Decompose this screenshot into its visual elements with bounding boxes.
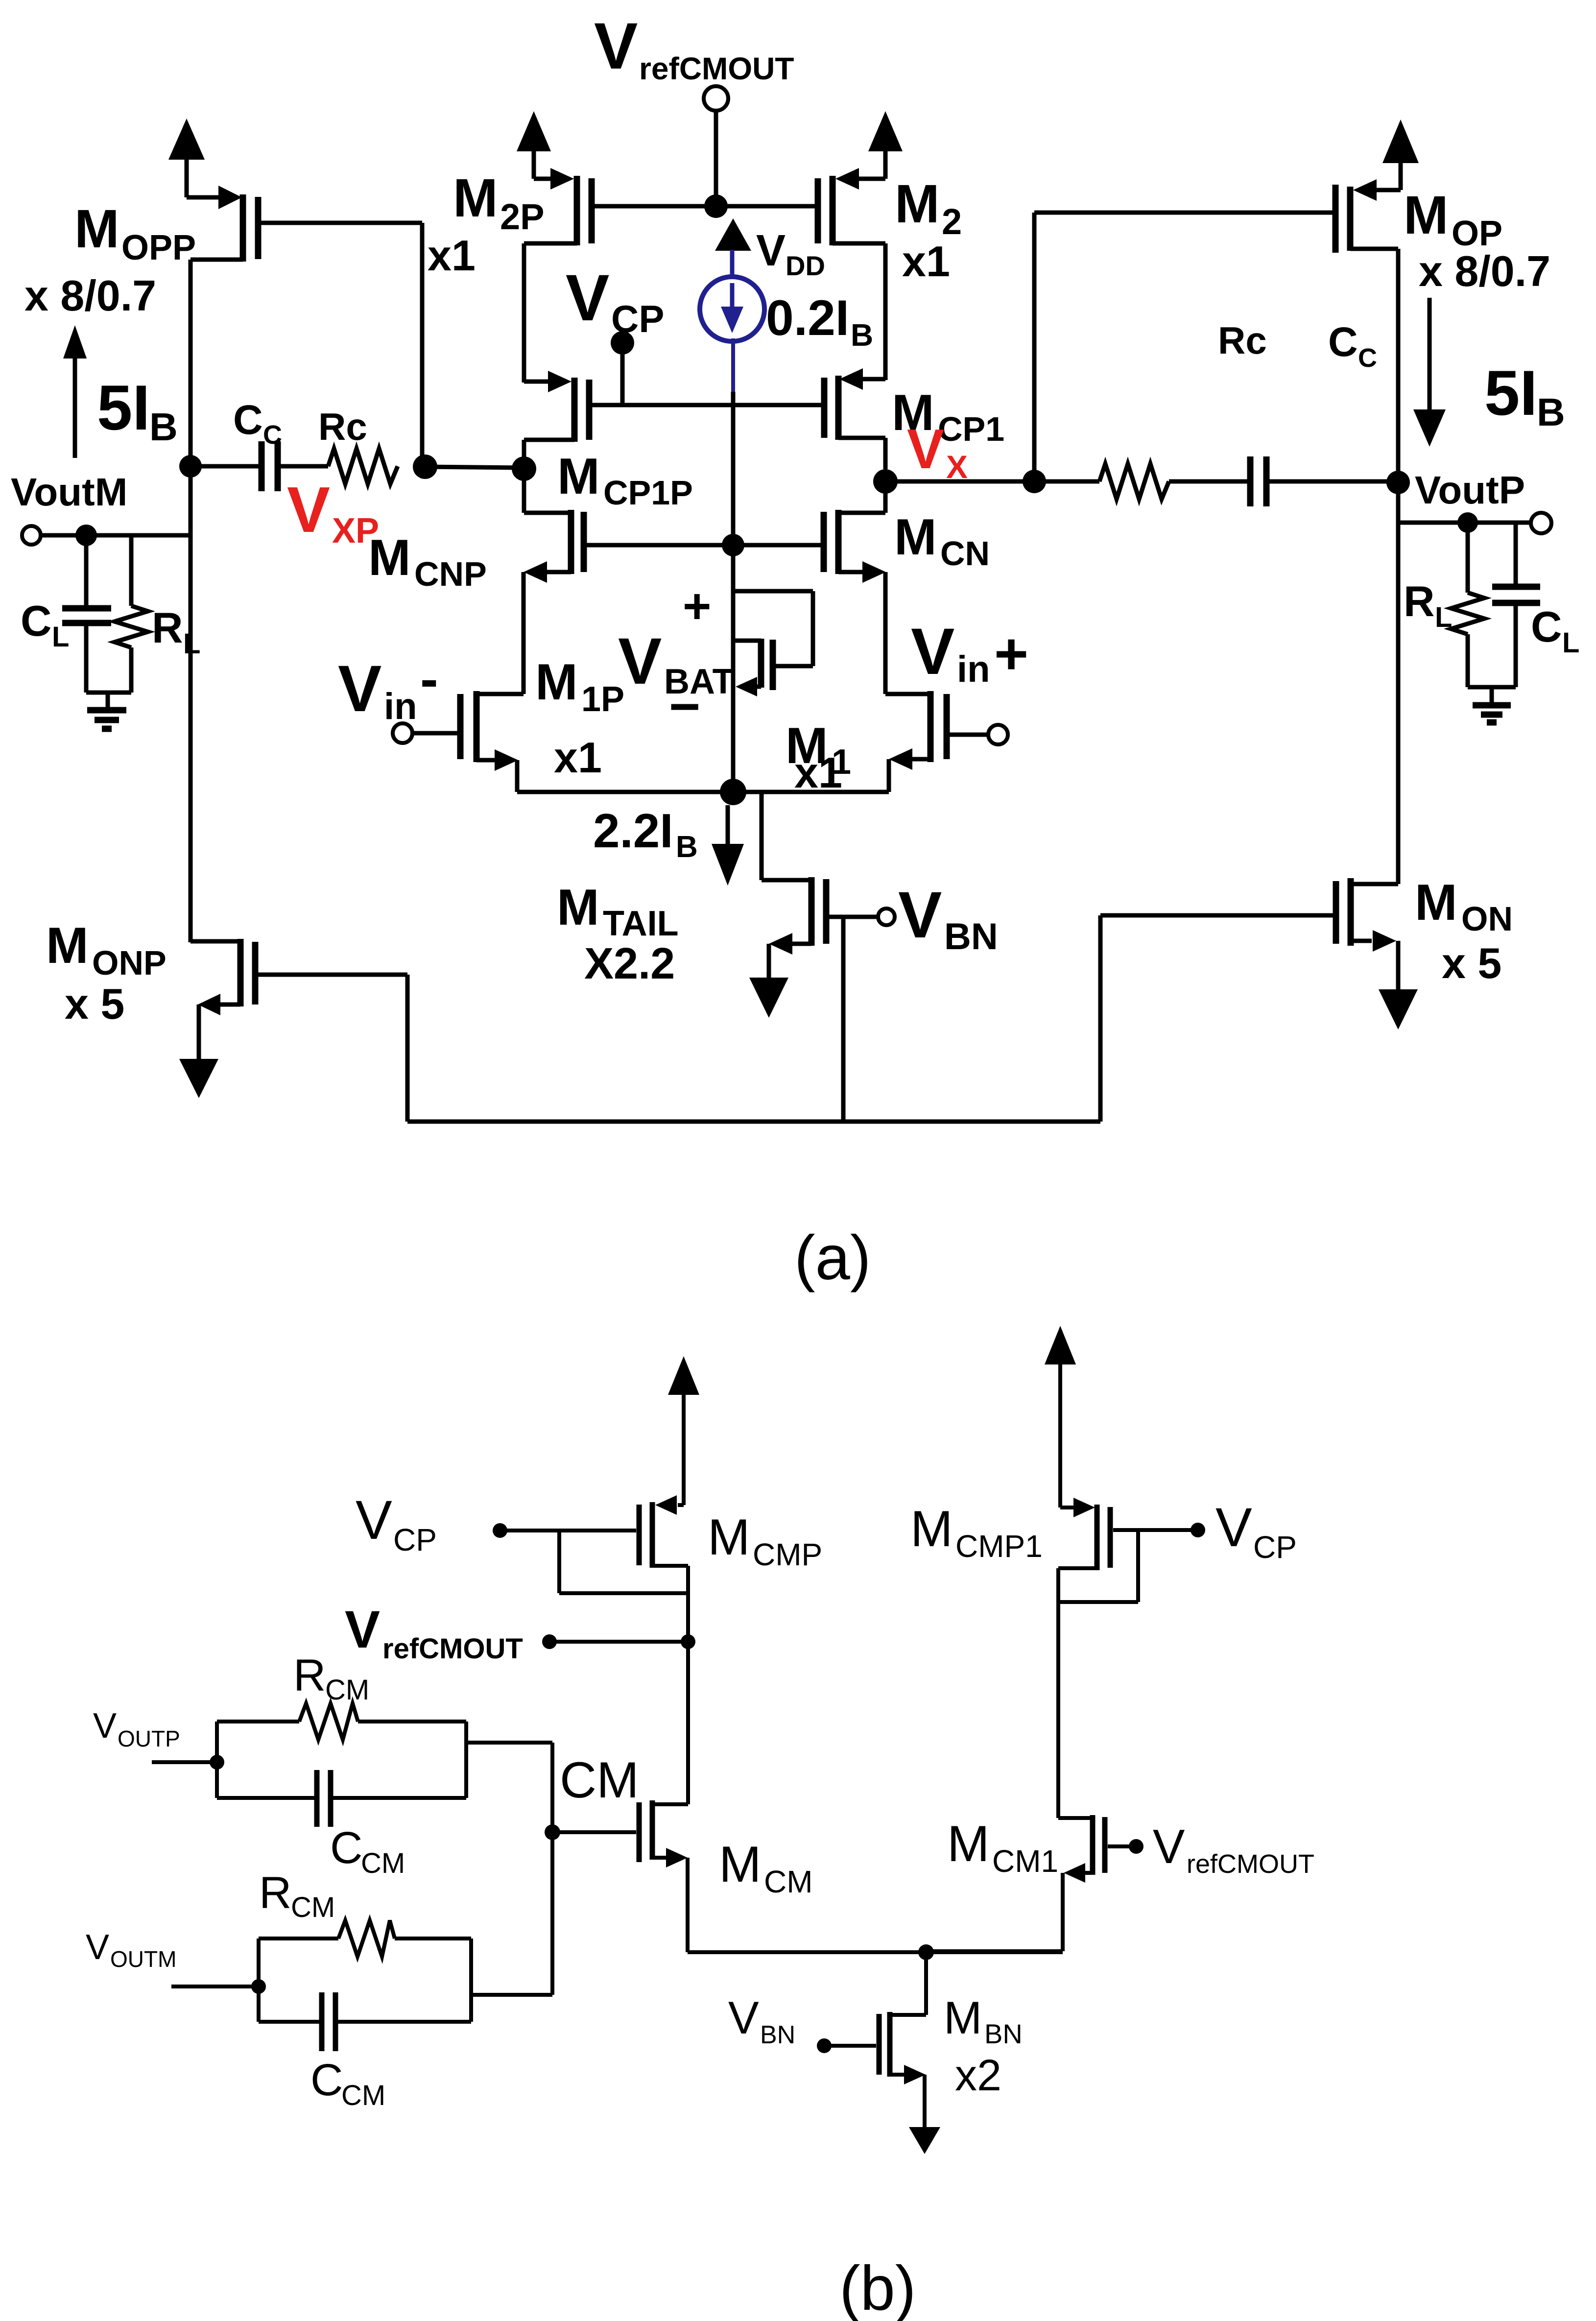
svg-text:2: 2 [942,201,962,242]
wire VOUTP block output [466,1741,552,1745]
svg-text:V: V [287,474,330,546]
5IB down arrow annotation (right) [1413,298,1446,447]
capacitor CL (right) [1492,523,1540,687]
ground arrow (MONP source, VSS) [179,1005,218,1098]
node VrefCMOUT (b right) [1129,1839,1143,1854]
resistor RL (right) [1451,525,1484,687]
svg-text:in: in [957,648,990,690]
svg-text:C: C [310,2055,343,2105]
label MCMP1 [910,1501,1043,1564]
svg-text:CP1: CP1 [938,410,1004,448]
label MCMP [708,1509,822,1572]
label MCP1 [892,384,1004,448]
svg-text:CP: CP [1253,1530,1297,1565]
transistor MON (NMOS x 5) [1100,878,1398,952]
svg-text:refCMOUT: refCMOUT [639,51,794,86]
wire VrefCMOUT to drain column [549,1640,688,1644]
svg-text:V: V [566,262,609,335]
svg-text:x2: x2 [955,2051,1001,2100]
VDD arrow above MOP [1382,120,1419,190]
VDD arrow above MCMP1 [1045,1326,1076,1507]
transistor MTAIL (NMOS X2.2) [762,792,878,955]
wire load bottom (left) [86,691,131,695]
svg-text:TAIL: TAIL [603,904,679,943]
transistor M2 (PMOS x1) [818,168,885,245]
label RL (left) [152,603,200,660]
terminal VrefCMOUT (open circle) [704,86,728,111]
wire CM column [550,1743,554,1995]
svg-text:Rc: Rc [1218,319,1267,362]
svg-text:2.2I: 2.2I [593,804,673,858]
label VOUTM [86,1928,176,1972]
label VCP (b right) [1215,1497,1297,1565]
transistor MCMP (PMOS) [500,1495,688,1804]
svg-text:C: C [1358,343,1377,373]
svg-text:M: M [1404,185,1449,245]
svg-text:x1: x1 [794,748,842,797]
ground arrow (MBN source, VSS) [909,2075,940,2154]
wire VCP stem [620,343,625,405]
node VOUTM [251,1979,266,1994]
node tail [720,779,746,805]
node VX (left dot) [873,469,898,494]
transistor MCP1P (PMOS cascode) [524,371,589,458]
label M1P [535,654,624,719]
label M2P [453,168,545,237]
VDD arrow above MCMP [668,1356,699,1505]
svg-text:5I: 5I [1484,357,1537,429]
label RCM (VOUTP) [293,1651,369,1706]
transistor MOP (PMOS x 8/0.7) [1335,179,1401,253]
svg-text:M: M [1415,874,1457,931]
wire VX [885,479,1034,484]
svg-text:M: M [894,509,937,566]
svg-text:BN: BN [984,2018,1023,2049]
svg-text:x1: x1 [902,237,950,286]
label VBN (a) [898,879,998,957]
svg-text:CM: CM [560,1752,639,1809]
svg-text:−: − [669,676,700,737]
wire MCM/MCM1 source rail [688,1950,1063,1954]
label MONP [46,917,167,982]
label VDD [756,226,825,281]
resistor RCM (top, VOUTP) [217,1703,466,1798]
wire VX node to Rc (right) [1034,479,1099,484]
terminal VoutM (open circle) [22,526,41,545]
svg-text:x1: x1 [428,231,476,280]
label MOPP [74,199,196,267]
svg-text:V: V [756,226,786,275]
label MON [1415,874,1513,938]
svg-text:V: V [86,1928,109,1967]
ground arrow (MON source, VSS) [1379,941,1418,1029]
svg-text:DD: DD [786,250,825,281]
transistor MOPP (PMOS x 8/0.7) [187,186,422,262]
label MTAIL [557,879,679,943]
svg-text:C: C [1531,602,1562,651]
current source 0.2IB (blue) [700,250,764,545]
node VXP [413,455,437,479]
VDD arrow above MOPP [168,119,205,197]
svg-text:M: M [557,448,600,505]
terminal VoutP (open circle) [1531,513,1551,533]
svg-text:OPP: OPP [121,228,196,267]
wire VX node to MOP gate (riser) [1032,213,1037,481]
terminal VBN (open circle) [878,909,895,925]
wire VOUTP input [152,1760,217,1764]
svg-text:V: V [1153,1819,1185,1873]
node VoutP [1386,471,1410,494]
svg-text:2P: 2P [500,196,545,237]
VDD arrow above M2 [868,111,903,179]
node VBN (b) [817,2038,832,2053]
node VCP [611,331,634,355]
wire M2P drain column [522,243,526,383]
node VoutM [179,455,202,478]
svg-text:M: M [719,1836,762,1893]
svg-text:(b): (b) [839,2253,916,2321]
svg-text:R: R [293,1651,326,1700]
wire MOP gate line [1034,211,1333,215]
svg-text:M: M [557,879,599,936]
svg-text:L: L [183,628,200,660]
label VBAT [618,625,734,701]
svg-text:M: M [708,1509,750,1566]
capacitor CCM (VOUTM) [259,1938,471,2051]
svg-text:CM: CM [325,1674,369,1706]
label VrefCMOUT (top) [594,10,794,86]
svg-text:x1: x1 [554,733,602,782]
node VXP column junction [512,456,536,481]
label MCN [894,509,990,573]
wire central bias column [731,545,736,792]
svg-text:V: V [345,1600,380,1659]
svg-text:R: R [1404,577,1435,625]
svg-text:M: M [895,174,940,234]
svg-text:V: V [594,10,638,83]
svg-text:(a): (a) [794,1223,871,1293]
wire Rc to Cc (right) [1169,479,1248,484]
svg-text:ON: ON [1461,900,1513,938]
svg-text:B: B [149,405,178,449]
wire M2 drain column [883,243,888,380]
terminal Vin+ (open circle) [988,725,1008,744]
node VOUTP [210,1755,224,1770]
wire VoutP load tap [1398,521,1532,525]
label MCM [719,1836,813,1899]
svg-text:L: L [1562,627,1579,659]
node on VoutP load wire [1457,512,1478,533]
svg-text:refCMOUT: refCMOUT [1187,1849,1314,1879]
ground (left load) [87,693,126,729]
svg-text:CMP: CMP [753,1537,822,1572]
svg-text:M: M [535,654,578,711]
svg-text:M: M [46,917,89,974]
transistor MONP (NMOS x 5) [191,939,407,1015]
svg-text:X2.2: X2.2 [584,939,675,988]
VDD arrow above M2P [517,111,551,179]
svg-text:M: M [74,199,119,259]
transistor M1P (NMOS input, x1) [412,691,524,792]
svg-text:M: M [944,1992,982,2043]
wire VoutM to Cc [191,464,259,469]
svg-text:C: C [233,397,263,443]
wire MOP drain column [1396,249,1401,884]
svg-text:refCMOUT: refCMOUT [382,1633,523,1665]
svg-text:V: V [356,1489,392,1551]
ground arrow (MTAIL source, VSS) [749,944,788,1018]
2.2IB down arrow annotation [712,805,744,885]
node drain column VrefCMOUT [681,1634,695,1649]
wire VBN riser to bottom rail [841,917,846,1122]
svg-text:x 8/0.7: x 8/0.7 [24,271,156,320]
svg-text:CM1: CM1 [992,1843,1058,1879]
capacitor CL (left) [62,535,111,693]
svg-text:V: V [1215,1497,1252,1558]
label Vin+ [911,615,1028,690]
svg-text:OUTP: OUTP [118,1726,180,1751]
svg-text:V: V [898,879,942,952]
svg-text:CM: CM [764,1864,813,1899]
svg-text:CM: CM [291,1891,335,1923]
svg-text:V: V [338,652,381,725]
transistor MCNP (NMOS cascode) [524,469,584,694]
label 0.2IB [766,290,873,353]
resistor Rc (right) [1099,464,1169,499]
label VrefCMOUT (b left, bold) [345,1600,523,1665]
battery VBAT branch wiring [733,591,813,666]
svg-text:V: V [911,615,954,688]
wire PMOS cascode gate line [592,403,821,407]
label VCP (a) [566,262,664,340]
transistor M1 (NMOS input, x1) [885,691,988,792]
wire NMOS cascode gate line [587,543,821,548]
svg-text:C: C [1328,319,1358,365]
svg-text:OUTM: OUTM [110,1946,176,1972]
wire VoutM terminal [41,533,191,538]
transistor MCMP1 (PMOS) [1058,1498,1191,1818]
label MCNP [368,529,487,593]
label M1 [786,718,851,782]
label VCP (b left) [356,1489,437,1557]
svg-text:L: L [1435,601,1452,633]
wire load bottom (right) [1468,685,1516,690]
transistor M2P (PMOS x1) [524,168,592,245]
label VXP (red) [287,474,379,550]
label MBN [944,1992,1023,2049]
svg-text:V: V [728,1992,759,2043]
wire tail [517,790,889,794]
transistor MCP1 (PMOS cascode) [824,368,885,469]
svg-text:in: in [384,686,417,727]
capacitor CCM (VOUTP) [217,1722,466,1827]
svg-text:C: C [330,1823,362,1873]
svg-text:5I: 5I [97,372,150,443]
svg-text:x 5: x 5 [65,980,124,1028]
label Cc (left) [233,397,282,450]
label MCP1P [557,448,693,512]
node MBN drain [918,1944,934,1960]
node CM [545,1824,560,1840]
svg-text:CP: CP [393,1522,437,1557]
node VCP (b left) [493,1523,507,1538]
label VBN (b) [728,1992,795,2049]
svg-text:V: V [93,1706,117,1746]
label VrefCMOUT (b right) [1153,1819,1314,1879]
label VX (red) [907,418,968,485]
transistor MCN (NMOS cascode) [824,481,886,694]
svg-text:M: M [368,529,411,586]
svg-text:B: B [676,830,698,864]
transistor MBN (NMOS x2) [831,1952,926,2084]
svg-text:R: R [259,1868,291,1918]
capacitor Cc (right) [1250,456,1398,506]
resistor Rc (left) [328,449,398,484]
svg-text:x 5: x 5 [1442,939,1501,987]
svg-text:BN: BN [944,916,998,957]
svg-text:CM: CM [361,1847,405,1879]
5IB up arrow annotation (left) [63,325,87,458]
label MCM1 [947,1816,1058,1879]
transistor MCM (NMOS) [552,1800,688,1952]
label M2 [895,174,962,242]
svg-text:VoutP: VoutP [1415,468,1525,512]
wire bottom rail [407,1120,1100,1124]
svg-text:B: B [851,317,873,353]
svg-text:x 8/0.7: x 8/0.7 [1419,247,1550,295]
label MOP [1404,185,1502,253]
svg-text:1P: 1P [581,680,624,719]
svg-text:CMP1: CMP1 [955,1529,1043,1564]
svg-text:VoutM: VoutM [11,470,127,514]
capacitor Cc (left) [262,441,328,491]
svg-text:V: V [907,418,944,480]
wire VrefCMOUT stem [714,111,718,206]
svg-text:0.2I: 0.2I [766,290,849,346]
svg-text:M: M [947,1816,990,1872]
node on VoutM load wire [75,525,97,546]
svg-text:CP1P: CP1P [603,474,693,512]
battery VBAT (MOS-connected) [733,639,773,696]
node VX (right dot) [1023,470,1046,493]
svg-text:C: C [263,420,282,450]
svg-text:R: R [152,603,183,652]
label 2.2IB [593,804,698,864]
label CCM (VOUTM) [310,2055,385,2111]
label RL (right) [1404,577,1452,633]
wire VXP to MCP1P drain column [425,467,524,468]
svg-text:C: C [21,597,52,645]
node M2P/M2 gates [704,194,728,218]
label 5IB (left) [97,372,178,449]
svg-text:B: B [1537,390,1565,434]
wire MONP gate riser to bottom rail [405,975,410,1122]
wire MOPP gate to VXP node [420,223,425,467]
label 5IB (right) [1484,357,1565,434]
svg-text:+: + [683,579,711,634]
label Vin- [338,649,438,727]
svg-text:L: L [52,621,69,653]
svg-text:CN: CN [940,534,990,573]
terminal Vin- (open circle) [393,723,412,743]
label CL (left) [21,597,69,653]
wire VOUTM block output [471,1993,552,1997]
label VOUTP [93,1706,180,1751]
node VrefCMOUT (b left) [542,1634,557,1649]
svg-text:V: V [618,625,662,698]
label CCM (VOUTP) [330,1823,405,1879]
ground (right load) [1473,687,1511,722]
svg-text:ONP: ONP [92,944,167,982]
node VCP (b right) [1191,1523,1205,1537]
label Cc (right) [1328,319,1377,373]
svg-text:CM: CM [341,2080,385,2111]
svg-text:M: M [910,1501,953,1557]
svg-text:Rc: Rc [318,405,367,448]
svg-text:-: - [420,649,438,709]
label RCM (VOUTM) [259,1868,335,1923]
transistor MCM1 (NMOS) [926,1815,1129,1951]
resistor RL (left) [115,535,148,693]
VDD arrow (middle, above 0.2IB) [715,218,751,251]
svg-text:BN: BN [760,2021,795,2049]
svg-text:CNP: CNP [414,555,487,593]
label CL (right) [1531,602,1579,659]
node cascode gate bias [722,534,744,556]
wire MON gate riser [1098,915,1103,1122]
resistor RCM (bottom, VOUTM) [259,1920,471,2022]
wire gate line M2P-M2 [592,204,818,209]
svg-text:+: + [994,621,1028,687]
wire VOUTM input [171,1985,259,1988]
svg-text:M: M [453,168,498,228]
wire MOPP drain down to MONP [189,260,193,942]
